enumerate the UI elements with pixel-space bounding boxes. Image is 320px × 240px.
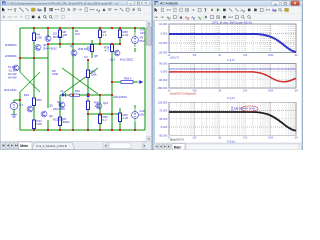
svg-text:0.2: 0.2 — [103, 118, 107, 122]
svg-text:N4.0W: N4.0W — [8, 76, 17, 80]
svg-text:1k0: 1k0 — [75, 32, 80, 36]
svg-text:AC Analysis: AC Analysis — [160, 2, 178, 6]
svg-text:C:\MC10\data\switching detecti: C:\MC10\data\switching detection\OPS-AB_… — [7, 1, 118, 5]
svg-text:Q11: Q11 — [103, 101, 109, 105]
svg-text:2N3906C: 2N3906C — [5, 54, 17, 58]
svg-text:100k: 100k — [52, 72, 59, 76]
svg-text:OPS_B-dea_BW-quad=5E-06: OPS_B-dea_BW-quad=5E-06 — [212, 20, 252, 24]
svg-text:R5x: R5x — [75, 89, 81, 93]
svg-text:-4.7: -4.7 — [87, 49, 92, 53]
svg-text:QP: QP — [94, 54, 98, 58]
svg-text:-4.7: -4.7 — [104, 49, 109, 53]
svg-text:1M: 1M — [294, 89, 297, 92]
svg-text:0.000: 0.000 — [161, 125, 168, 129]
svg-text:100: 100 — [192, 54, 197, 57]
svg-text:R65 4: R65 4 — [124, 76, 132, 80]
svg-text:-90.000: -90.000 — [158, 78, 168, 82]
svg-text:R21: R21 — [24, 93, 30, 97]
svg-text:F (Hz): F (Hz) — [227, 96, 235, 100]
svg-text:F (Hz): F (Hz) — [227, 58, 235, 62]
svg-text:-180.000: -180.000 — [157, 86, 168, 90]
svg-text:105.000: 105.000 — [158, 100, 168, 104]
svg-text:MJL1302C: MJL1302C — [120, 58, 134, 62]
svg-text:2SC3803: 2SC3803 — [53, 107, 65, 111]
svg-text:10K: 10K — [243, 54, 248, 57]
svg-text:100: 100 — [192, 137, 197, 140]
svg-text:0.000: 0.000 — [161, 70, 168, 74]
svg-text:70.000: 70.000 — [159, 109, 168, 113]
svg-text:1M: 1M — [294, 137, 297, 140]
svg-text:Q7: Q7 — [70, 44, 74, 48]
svg-text:V1: V1 — [20, 103, 24, 107]
svg-text:10K: 10K — [243, 137, 248, 140]
svg-text:Main: Main — [174, 145, 181, 149]
svg-text:C1: C1 — [60, 89, 64, 93]
svg-text:C08: C08 — [37, 122, 43, 126]
svg-text:100K: 100K — [268, 137, 274, 140]
svg-text:v(OUT): v(OUT) — [170, 55, 179, 59]
svg-text:-4.7: -4.7 — [94, 104, 99, 108]
svg-text:65V: 65V — [140, 39, 145, 43]
svg-text:100: 100 — [63, 33, 68, 37]
svg-text:100k: 100k — [91, 73, 98, 77]
svg-text:1M: 1M — [294, 54, 297, 57]
svg-text:T: T — [204, 8, 207, 13]
svg-text:0.33: 0.33 — [123, 116, 129, 120]
svg-text:2N3906C: 2N3906C — [5, 43, 17, 47]
svg-text:0.33: 0.33 — [123, 33, 129, 37]
svg-text:db(v(OUT)): db(v(OUT)) — [170, 137, 184, 141]
svg-text:3dB BW=94.3KHz: 3dB BW=94.3KHz — [234, 107, 256, 111]
svg-text:10K: 10K — [243, 89, 248, 92]
svg-text:90.000: 90.000 — [159, 62, 168, 66]
svg-text:MJL3281C: MJL3281C — [114, 95, 128, 99]
svg-text:1K: 1K — [218, 54, 221, 57]
svg-text:100K: 100K — [268, 54, 274, 57]
svg-text:Tool_A_Module_p-001-B: Tool_A_Module_p-001-B — [36, 144, 67, 148]
svg-text:35.000: 35.000 — [159, 117, 168, 121]
svg-text:-35.000: -35.000 — [158, 133, 168, 137]
svg-text:1K: 1K — [218, 137, 221, 140]
svg-text:10.000: 10.000 — [159, 22, 168, 26]
svg-text:100K: 100K — [268, 89, 274, 92]
svg-text:C3: C3 — [84, 55, 88, 59]
svg-text:-10.000: -10.000 — [158, 41, 168, 45]
svg-text:0.2: 0.2 — [103, 33, 107, 37]
svg-text:BC550C: BC550C — [53, 117, 64, 121]
svg-text:ph(v(OUT)) (Degrees): ph(v(OUT)) (Degrees) — [170, 92, 196, 96]
svg-text:T: T — [14, 7, 17, 12]
svg-text:C08: C08 — [37, 36, 43, 40]
svg-text:0.000: 0.000 — [161, 32, 168, 36]
svg-text:65V: 65V — [140, 112, 145, 116]
svg-text:Main: Main — [20, 144, 28, 148]
svg-text:2N4.343C: 2N4.343C — [4, 88, 17, 92]
svg-text:R53: R53 — [37, 98, 43, 102]
svg-text:-20.000: -20.000 — [158, 51, 168, 55]
svg-text:2N4.4361C: 2N4.4361C — [43, 47, 57, 51]
svg-text:Q13: Q13 — [110, 58, 116, 62]
svg-text:Q8: Q8 — [57, 100, 61, 104]
svg-text:a3V: a3V — [140, 31, 145, 35]
svg-text:1K: 1K — [218, 89, 221, 92]
